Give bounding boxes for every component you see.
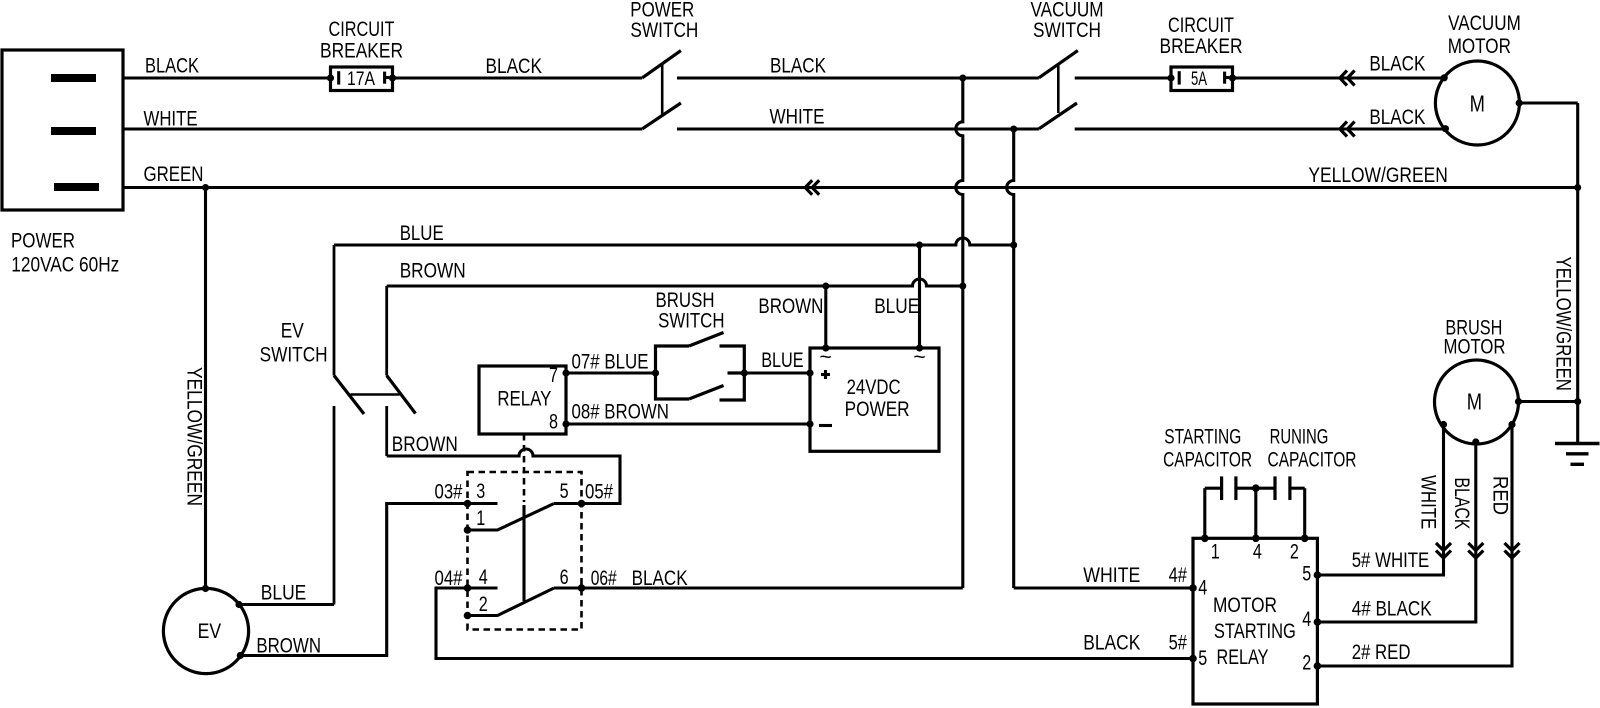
svg-text:17A: 17A: [347, 69, 375, 90]
wire BROWN EV switch to contact T5 (hops link line): [387, 449, 620, 504]
svg-text:POWER: POWER: [845, 398, 910, 421]
svg-text:BLACK: BLACK: [1450, 478, 1473, 530]
wire WHITE power switch to vacuum switch: [677, 127, 1039, 130]
contact terminal 4: [464, 566, 498, 592]
svg-text:BLACK: BLACK: [770, 55, 826, 78]
svg-text:RUNING: RUNING: [1270, 426, 1329, 449]
svg-text:EV: EV: [281, 320, 304, 343]
vacuum motor M1: [1435, 61, 1522, 145]
svg-text:POWER: POWER: [11, 230, 75, 253]
svg-text:YELLOW/GREEN: YELLOW/GREEN: [1552, 257, 1575, 391]
label POWER 120VAC 60Hz: [11, 230, 119, 277]
svg-text:GREEN: GREEN: [144, 163, 204, 186]
svg-text:EV: EV: [198, 620, 222, 643]
wire BLACK CB2 to vacuum motor: [1233, 76, 1445, 79]
node BLUE feed junction: [1010, 242, 1017, 249]
svg-text:5: 5: [1198, 647, 1207, 670]
svg-text:BLUE: BLUE: [400, 222, 444, 245]
svg-text:MOTOR: MOTOR: [1448, 35, 1511, 58]
power switch S1: [642, 51, 681, 129]
24VDC power supply PS1: [806, 344, 939, 451]
svg-text:BROWN: BROWN: [256, 635, 321, 658]
svg-text:BROWN: BROWN: [400, 260, 466, 283]
wire 08# BROWN relay pin8 to 24VDC minus: [566, 422, 810, 425]
label VACUUM MOTOR: [1448, 12, 1521, 58]
svg-text:4: 4: [479, 566, 488, 589]
svg-text:MOTOR: MOTOR: [1444, 336, 1506, 359]
wire BLUE EV to switch: [239, 603, 334, 606]
wire brush motor to ground rail: [1519, 400, 1578, 403]
wire BLUE horizontal (hops BLACK feed): [334, 238, 1014, 245]
brush switch S4: [652, 333, 748, 401]
wire BLACK power switch to vacuum switch: [677, 76, 1039, 79]
wire BLUE brush switch to 24VDC plus: [744, 371, 810, 374]
motor starting relay K2: [1189, 535, 1321, 705]
svg-text:7: 7: [549, 364, 558, 387]
node WHITE feed junction: [1010, 126, 1017, 133]
wire 06# BLACK contact T6 to black feed: [582, 586, 963, 589]
svg-text:5: 5: [1302, 562, 1311, 585]
label BRUSH SWITCH: [656, 289, 725, 333]
wire 07# BLUE relay pin7 to brush switch: [566, 371, 656, 374]
wire BLACK vacuum switch to CB2: [1075, 76, 1171, 79]
svg-text:4: 4: [1253, 540, 1262, 563]
svg-text:WHITE: WHITE: [1083, 564, 1140, 587]
chevrons down on RED: [1505, 543, 1520, 558]
svg-text:BREAKER: BREAKER: [320, 40, 403, 63]
wire BROWN horizontal (hops BLUE drop): [387, 279, 963, 286]
label EV SWITCH: [260, 320, 328, 367]
svg-text:BREAKER: BREAKER: [1160, 35, 1243, 58]
node BLACK feed to BROWN: [959, 283, 966, 290]
chevrons on BLACK wire lower: [1340, 122, 1355, 137]
svg-text:CIRCUIT: CIRCUIT: [329, 18, 395, 41]
running capacitor C2: [1252, 476, 1305, 538]
EV switch S3: [334, 245, 416, 605]
svg-text:RELAY: RELAY: [1217, 646, 1269, 669]
svg-text:M: M: [1470, 90, 1485, 116]
chevrons down on WHITE: [1436, 543, 1451, 558]
svg-text:~: ~: [819, 346, 831, 369]
node BROWN to 24VDC junction: [822, 283, 829, 290]
node rail-green junction: [1574, 184, 1581, 191]
svg-text:5# WHITE: 5# WHITE: [1352, 549, 1430, 572]
mechanical link dashed from relay: [523, 434, 526, 502]
wire BROWN vertical to PS1: [824, 286, 827, 348]
starting capacitor C1: [1205, 476, 1275, 538]
svg-text:BLACK: BLACK: [1083, 632, 1140, 655]
svg-text:4: 4: [1302, 608, 1311, 631]
svg-text:BLACK: BLACK: [1369, 106, 1425, 129]
svg-text:SWITCH: SWITCH: [658, 310, 724, 333]
svg-text:VACUUM: VACUUM: [1448, 12, 1521, 35]
label POWER SWITCH: [630, 0, 698, 42]
svg-text:2: 2: [1290, 540, 1299, 563]
svg-text:M: M: [1467, 389, 1482, 415]
wire right rail YELLOW/GREEN vertical: [1576, 103, 1579, 444]
svg-text:1: 1: [1211, 540, 1220, 563]
svg-text:BROWN: BROWN: [392, 433, 458, 456]
contact block dashed outline: [468, 472, 582, 630]
label BRUSH MOTOR: [1444, 317, 1506, 359]
svg-text:4: 4: [1198, 576, 1207, 599]
relay K1: [479, 364, 570, 434]
svg-text:CAPACITOR: CAPACITOR: [1268, 448, 1357, 471]
circuit breaker CB1 17A: [327, 67, 396, 91]
svg-text:08# BROWN: 08# BROWN: [572, 401, 669, 424]
chevrons on BLACK wire upper: [1340, 71, 1355, 86]
contact terminal 3: [464, 480, 498, 507]
svg-text:BLUE: BLUE: [261, 582, 307, 605]
node BLUE to 24VDC junction: [916, 242, 923, 249]
wire vacuum motor to right rail: [1519, 101, 1578, 104]
svg-text:CAPACITOR: CAPACITOR: [1163, 448, 1252, 471]
contact blade 1-5: [464, 504, 554, 534]
contact blade 2-6: [464, 588, 554, 619]
contact terminal 5: [554, 480, 585, 507]
node GREEN junction: [202, 184, 209, 191]
chevrons down on BLACK: [1468, 543, 1483, 558]
label CIRCUIT BREAKER (CB2): [1160, 14, 1243, 58]
svg-text:03#: 03#: [435, 480, 463, 503]
svg-text:SWITCH: SWITCH: [630, 19, 698, 42]
svg-text:05#: 05#: [585, 480, 613, 503]
wire BLACK CB1 to power switch: [393, 76, 643, 79]
svg-text:BLACK: BLACK: [1369, 53, 1425, 76]
power connector P1: [2, 50, 123, 210]
svg-text:SWITCH: SWITCH: [260, 344, 328, 367]
svg-text:4# BLACK: 4# BLACK: [1352, 598, 1432, 621]
svg-text:STARTING: STARTING: [1164, 426, 1241, 449]
svg-text:CIRCUIT: CIRCUIT: [1168, 14, 1234, 37]
wire 04# contact T4 to motor relay pin5: [436, 588, 1193, 659]
vacuum switch S2: [1039, 51, 1078, 129]
svg-text:4#: 4#: [1169, 564, 1188, 587]
svg-text:SWITCH: SWITCH: [1033, 19, 1101, 42]
wire 5# WHITE motor relay to brush motor: [1317, 425, 1443, 576]
svg-text:3: 3: [476, 480, 485, 503]
svg-text:WHITE: WHITE: [1417, 475, 1440, 529]
ground: [1555, 444, 1600, 465]
svg-text:6: 6: [560, 566, 569, 589]
wire BLACK vacuum switch to vacuum motor: [1075, 127, 1446, 130]
wire WHITE/BLUE feed vertical (hops GREEN): [1007, 129, 1014, 588]
svg-text:STARTING: STARTING: [1214, 620, 1296, 643]
wire WHITE 4# feed to motor relay pin4: [1014, 586, 1193, 589]
wire GREEN / YELLOW-GREEN bus: [124, 186, 1578, 189]
label VACUUM SWITCH: [1031, 0, 1104, 42]
wire BLACK feed vertical (hops WHITE and GREEN): [956, 78, 963, 588]
label RUNING CAPACITOR: [1268, 426, 1357, 472]
svg-text:8: 8: [549, 411, 558, 434]
wire 4# BLACK motor relay to brush motor: [1317, 442, 1475, 622]
wire BLACK P1 to CB1: [124, 76, 331, 79]
svg-text:YELLOW/GREEN: YELLOW/GREEN: [1308, 164, 1447, 187]
wire WHITE P1 to power switch: [124, 127, 643, 130]
svg-text:07# BLUE: 07# BLUE: [572, 351, 649, 374]
chevrons on YELLOW/GREEN wire: [805, 180, 819, 194]
brush motor M2: [1435, 360, 1523, 446]
svg-text:YELLOW/GREEN: YELLOW/GREEN: [183, 367, 206, 506]
svg-text:BLUE: BLUE: [874, 295, 919, 318]
svg-text:24VDC: 24VDC: [847, 376, 901, 399]
wire 2# RED motor relay to brush motor: [1317, 425, 1512, 667]
wire left rail YELLOW/GREEN vertical: [204, 188, 207, 589]
svg-text:MOTOR: MOTOR: [1213, 594, 1277, 617]
wire BLUE vertical to PS1: [918, 245, 921, 348]
svg-text:120VAC 60Hz: 120VAC 60Hz: [11, 254, 119, 277]
svg-text:~: ~: [913, 346, 925, 369]
label CIRCUIT BREAKER (CB1): [320, 18, 403, 62]
node rail-motor junction: [1574, 398, 1581, 405]
svg-text:1: 1: [476, 507, 485, 530]
svg-text:WHITE: WHITE: [770, 106, 825, 129]
circuit breaker CB2 5A: [1167, 67, 1236, 91]
label STARTING CAPACITOR: [1163, 426, 1252, 472]
mechanical link solid: [522, 505, 525, 601]
EV actuator coil: [163, 585, 248, 674]
wire 03# EV to contact T3: [240, 504, 467, 656]
svg-text:BROWN: BROWN: [758, 295, 823, 318]
contact terminal 6: [554, 566, 585, 592]
svg-text:RED: RED: [1489, 476, 1512, 515]
svg-text:5A: 5A: [1191, 69, 1207, 90]
svg-text:BLACK: BLACK: [145, 55, 199, 78]
svg-text:WHITE: WHITE: [144, 108, 198, 131]
svg-text:BLUE: BLUE: [761, 349, 803, 372]
svg-text:5: 5: [560, 480, 569, 503]
svg-text:RELAY: RELAY: [497, 388, 551, 411]
node BLACK feed junction: [959, 75, 966, 82]
svg-text:2: 2: [1302, 652, 1311, 675]
svg-text:2# RED: 2# RED: [1352, 641, 1411, 664]
svg-text:5#: 5#: [1169, 632, 1188, 655]
svg-text:BLACK: BLACK: [486, 55, 543, 78]
svg-text:2: 2: [479, 593, 488, 616]
